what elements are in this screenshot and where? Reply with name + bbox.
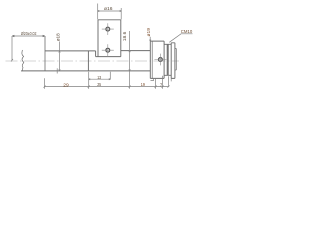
svg-text:7: 7 [160,82,163,87]
svg-text:ø16: ø16 [104,6,113,11]
svg-text:CM10: CM10 [181,29,193,34]
svg-text:19: 19 [141,82,146,87]
svg-text:ø19: ø19 [146,28,151,37]
svg-text:Ø20±0.02: Ø20±0.02 [21,31,37,36]
svg-text:29: 29 [63,82,69,87]
svg-text:ø18: ø18 [55,33,60,41]
svg-text:13: 13 [97,75,101,80]
svg-text:25: 25 [97,82,101,87]
svg-text:18.6: 18.6 [122,31,127,41]
